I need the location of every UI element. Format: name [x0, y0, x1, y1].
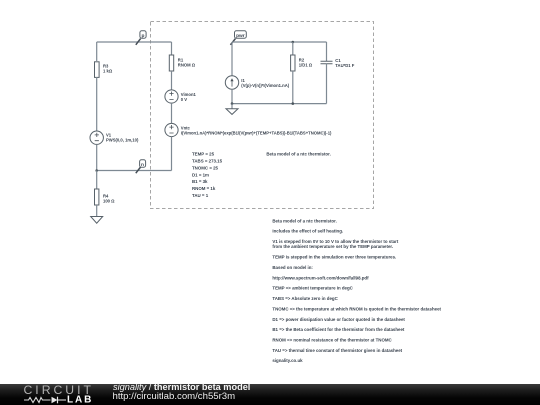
svg-text:0 V: 0 V — [181, 97, 187, 102]
svg-text:PWS(0,0, 1m,10): PWS(0,0, 1m,10) — [106, 138, 139, 143]
wire junction to ground — [231, 104, 233, 109]
voltage source Vntc — [165, 123, 332, 136]
current source I1 — [225, 76, 289, 89]
wire R3 to V1 — [96, 77, 98, 131]
svg-text:Based on model in:: Based on model in: — [272, 265, 313, 270]
capacitor C1 — [321, 58, 355, 68]
svg-text:D1 = 1m: D1 = 1m — [192, 172, 209, 177]
wire R2 branch top — [292, 42, 294, 55]
voltage source Vimon1 — [165, 90, 197, 103]
wire top-left net p horizontal — [97, 41, 172, 43]
junction node n — [95, 169, 98, 172]
wire Vimon1 to Vntc — [171, 103, 173, 123]
svg-text:TAU => thermal time constant o: TAU => thermal time constant of thermist… — [272, 348, 402, 353]
voltage source V1 — [90, 131, 139, 144]
wire R1 branch top vertical — [171, 42, 173, 55]
svg-text:Beta model of a ntc thermistor: Beta model of a ntc thermistor. — [266, 152, 330, 157]
svg-text:signality.co.uk: signality.co.uk — [272, 358, 303, 363]
svg-text:Beta model of a ntc thermistor: Beta model of a ntc thermistor. — [272, 218, 336, 223]
wire I1 branch top — [231, 42, 233, 76]
resistor R3 — [95, 62, 113, 78]
svg-text:TABS = 273.15: TABS = 273.15 — [192, 158, 223, 163]
wire pwr top horizontal — [232, 41, 327, 43]
resistor R1 — [169, 55, 195, 71]
annotation: parameter list — [192, 152, 223, 199]
svg-text:1 kΩ: 1 kΩ — [103, 69, 113, 74]
resistor R2 — [291, 55, 313, 71]
node label n — [136, 160, 146, 173]
svg-text:100 Ω: 100 Ω — [103, 199, 115, 204]
junction I1 ground — [231, 102, 234, 105]
svg-text:TEMP = 25: TEMP = 25 — [192, 152, 215, 157]
svg-text:TAU = 1: TAU = 1 — [192, 193, 209, 198]
wire R1 to Vimon1 — [171, 71, 173, 90]
wire Vntc to net n — [171, 137, 173, 171]
wire I1 bottom to junction — [231, 89, 233, 103]
svg-text:D1 => power dissipation value: D1 => power dissipation value or factor … — [272, 317, 405, 322]
wire R2 branch bottom — [292, 71, 294, 104]
annotation: description block — [272, 218, 441, 363]
svg-text:TEMP is stepped in the simulat: TEMP is stepped in the simulation over t… — [272, 255, 396, 260]
svg-text:http://www.spectrum-soft.com/d: http://www.spectrum-soft.com/down/fall98… — [272, 275, 369, 280]
junction R2 bottom — [292, 102, 295, 105]
svg-text:n: n — [141, 163, 144, 168]
svg-text:Includes the effect of self he: Includes the effect of self heating. — [272, 229, 343, 234]
svg-text:TNOMC => the temperature at wh: TNOMC => the temperature at which RNOM i… — [272, 306, 441, 311]
svg-text:TNOMC = 25: TNOMC = 25 — [192, 165, 219, 170]
svg-text:RNOM = 1k: RNOM = 1k — [192, 186, 216, 191]
wire junction to R4 — [96, 171, 98, 190]
wire sub-circuit bottom horizontal — [232, 103, 327, 105]
svg-text:B1 => the Beta coefficient for: B1 => the Beta coefficient for the therm… — [272, 327, 405, 332]
ground below R4 — [91, 217, 103, 224]
dashed model boundary — [151, 22, 374, 209]
node label p — [136, 31, 146, 45]
svg-text:(V(p)-V(n))*I(Vimon1.nA): (V(p)-V(n))*I(Vimon1.nA) — [241, 83, 289, 88]
node label pwr — [230, 31, 246, 45]
footer url text — [113, 392, 236, 402]
wire C1 branch bottom — [326, 64, 328, 104]
svg-text:TAU*D1 F: TAU*D1 F — [335, 63, 354, 68]
wire V1 to junction — [96, 144, 98, 170]
svg-text:RNOM Ω: RNOM Ω — [178, 63, 196, 68]
svg-text:LAB: LAB — [67, 394, 93, 405]
CircuitLab logo — [0, 384, 110, 405]
junction R2 top — [292, 41, 295, 44]
svg-text:B1 = 3k: B1 = 3k — [192, 179, 208, 184]
footer title text — [113, 383, 250, 393]
svg-text:RNOM => nominal resistance of: RNOM => nominal resistance of the thermi… — [272, 338, 392, 343]
svg-text:TEMP => ambient temperature in: TEMP => ambient temperature in degC — [272, 286, 353, 291]
svg-text:pwr: pwr — [236, 33, 245, 39]
resistor R4 — [95, 189, 116, 205]
svg-text:I(Vimon1.nA)*RNOM*(exp(B1/(V(p: I(Vimon1.nA)*RNOM*(exp(B1/(V(pwr)+(TEMP+… — [181, 131, 332, 136]
svg-text:from the ambient temperature s: from the ambient temperature set by the … — [272, 244, 393, 249]
wire C1 branch top — [326, 42, 328, 61]
wire net n horizontal — [97, 170, 172, 172]
wire R4 to ground — [96, 205, 98, 217]
svg-text:1/D1 Ω: 1/D1 Ω — [299, 63, 313, 68]
svg-text:TABS => Absolute zero in degC: TABS => Absolute zero in degC — [272, 296, 338, 301]
wire left branch top vertical — [96, 42, 98, 61]
ground below I1 — [226, 109, 238, 115]
footer bar — [0, 384, 540, 405]
svg-text:p: p — [141, 34, 144, 39]
